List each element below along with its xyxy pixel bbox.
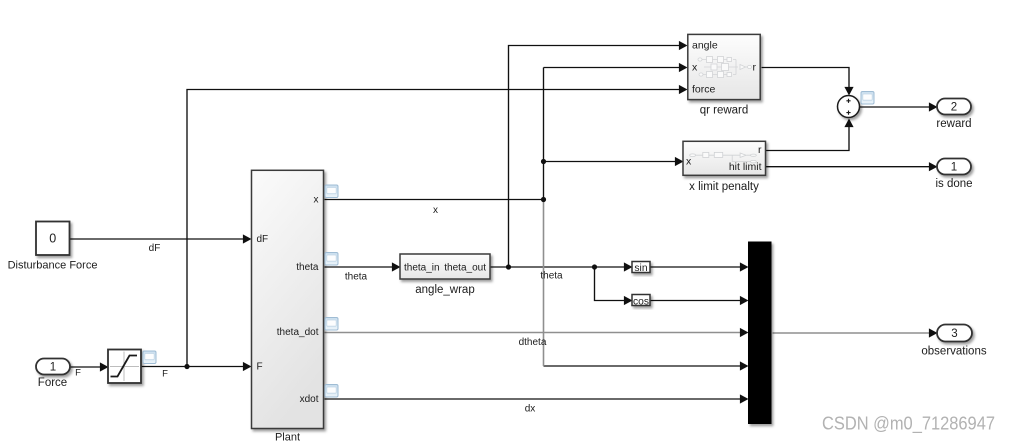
wire x down to mux input 4 bbox=[544, 365, 742, 367]
svg-text:xdot: xdot bbox=[300, 394, 319, 405]
arrow into Saturation bbox=[100, 362, 109, 371]
wire x: Plant x output to junction bbox=[325, 199, 544, 201]
junction theta to cos branch bbox=[592, 264, 597, 269]
x limit penalty content preview bbox=[690, 152, 757, 162]
qr reward content preview bbox=[698, 57, 752, 78]
arrow into x limit penalty x bbox=[675, 157, 684, 166]
svg-text:theta: theta bbox=[345, 272, 368, 283]
svg-text:x: x bbox=[692, 62, 698, 74]
arrow into reward bbox=[929, 102, 938, 111]
wire theta branch up to qr reward angle input bbox=[509, 46, 681, 268]
arrow into cos bbox=[624, 296, 633, 305]
wire qr reward r to Sum top bbox=[762, 68, 850, 89]
svg-text:Force: Force bbox=[38, 377, 67, 389]
arrow into Sum bottom (up) bbox=[844, 119, 853, 128]
svg-text:theta_dot: theta_dot bbox=[277, 327, 319, 338]
svg-text:sin: sin bbox=[634, 263, 647, 274]
wire force: branch up to qr reward force input bbox=[187, 90, 681, 367]
arrow into mux input 5 bbox=[740, 394, 749, 403]
svg-text:cos: cos bbox=[633, 296, 649, 307]
arrow into Sum top (down) bbox=[844, 87, 853, 96]
wire dx: Plant xdot to mux input 5 bbox=[325, 398, 742, 400]
gain cos bbox=[632, 295, 650, 306]
junction x to x limit penalty bbox=[541, 159, 546, 164]
arrow into Plant F bbox=[243, 362, 252, 371]
svg-text:dF: dF bbox=[149, 243, 161, 254]
arrow into Plant dF bbox=[243, 234, 252, 243]
sum block bbox=[838, 96, 860, 118]
badge on Sum output bbox=[861, 92, 874, 105]
gray soft wires bbox=[325, 200, 931, 367]
outport is done (1) bbox=[937, 159, 971, 175]
svg-text:theta_in: theta_in bbox=[404, 263, 440, 274]
wire theta: angle_wrap output to sin bbox=[491, 266, 626, 268]
svg-text:CSDN @m0_71286947: CSDN @m0_71286947 bbox=[822, 414, 995, 435]
svg-text:F: F bbox=[75, 368, 81, 379]
inport Force (1) bbox=[36, 359, 70, 375]
svg-text:hit limit: hit limit bbox=[729, 161, 762, 173]
wire x vertical trunk lower (soft) bbox=[543, 200, 545, 367]
svg-text:3: 3 bbox=[951, 328, 957, 340]
svg-text:x: x bbox=[686, 155, 692, 167]
svg-text:Plant: Plant bbox=[275, 432, 300, 443]
svg-text:force: force bbox=[692, 84, 716, 96]
svg-text:dtheta: dtheta bbox=[519, 337, 547, 348]
svg-text:F: F bbox=[162, 369, 168, 380]
arrow into sin bbox=[624, 262, 633, 271]
sum plus top bbox=[846, 99, 850, 103]
junction theta to angle branch bbox=[506, 264, 511, 269]
svg-text:theta: theta bbox=[296, 262, 319, 273]
outport reward (2) bbox=[937, 99, 971, 115]
svg-text:dF: dF bbox=[257, 234, 269, 245]
arrow into mux input 3 bbox=[740, 328, 749, 337]
outport observations (3) bbox=[937, 325, 972, 342]
wire hit limit to is done bbox=[766, 166, 931, 168]
wire x limit penalty r to Sum bottom bbox=[766, 126, 849, 151]
junction F branch bbox=[184, 364, 189, 369]
svg-text:reward: reward bbox=[936, 118, 971, 130]
badge on Plant xdot output bbox=[325, 385, 338, 398]
subsystem Plant bbox=[252, 170, 324, 428]
wire dF: Constant to Plant dF bbox=[70, 238, 245, 240]
badge on Plant theta output bbox=[325, 253, 338, 266]
wire x to qr reward x input bbox=[544, 67, 681, 69]
wire x vertical trunk upper bbox=[543, 68, 545, 200]
gain sin bbox=[632, 262, 650, 273]
svg-text:dx: dx bbox=[525, 404, 536, 415]
svg-text:observations: observations bbox=[921, 346, 986, 358]
svg-text:Disturbance Force: Disturbance Force bbox=[8, 259, 98, 271]
svg-text:2: 2 bbox=[951, 102, 957, 114]
arrow into mux input 1 bbox=[740, 262, 749, 271]
svg-text:x: x bbox=[314, 195, 319, 206]
svg-text:r: r bbox=[753, 62, 757, 74]
badge on Plant theta_dot output bbox=[325, 318, 338, 331]
arrow into observations bbox=[929, 328, 938, 337]
subsystem angle_wrap bbox=[400, 254, 490, 279]
wire cos output to mux input 2 bbox=[651, 300, 742, 302]
constant block Disturbance Force value 0 bbox=[36, 222, 70, 256]
subsystem qr reward bbox=[688, 34, 760, 99]
subsystem x limit penalty bbox=[683, 141, 766, 175]
svg-text:F: F bbox=[257, 362, 263, 373]
badge on Plant x output bbox=[325, 185, 338, 198]
sum plus bottom bbox=[846, 111, 850, 115]
wire Sum to reward bbox=[860, 106, 931, 108]
wire theta: Plant theta to angle_wrap bbox=[325, 266, 394, 268]
wire mux output to observations (soft) bbox=[773, 332, 931, 334]
arrow into qr reward angle bbox=[679, 41, 688, 50]
wire sin output to mux input 1 bbox=[651, 266, 742, 268]
svg-text:r: r bbox=[758, 144, 762, 156]
arrow into qr reward x bbox=[679, 63, 688, 72]
junction x at vertical trunk bbox=[541, 197, 546, 202]
svg-text:0: 0 bbox=[49, 231, 56, 245]
wire Force to Saturation bbox=[71, 366, 102, 368]
svg-text:qr reward: qr reward bbox=[700, 105, 749, 117]
svg-text:theta: theta bbox=[540, 270, 563, 281]
saturation axes bbox=[110, 352, 139, 382]
svg-text:is done: is done bbox=[935, 178, 972, 190]
saturation block bbox=[108, 350, 141, 384]
svg-text:theta_out: theta_out bbox=[444, 263, 486, 274]
arrow into mux input 4 bbox=[740, 361, 749, 370]
wire x to x limit penalty input bbox=[544, 161, 676, 163]
saturation curve bbox=[111, 356, 138, 377]
wire theta branch down to cos bbox=[595, 267, 626, 301]
svg-text:1: 1 bbox=[951, 162, 957, 174]
svg-text:angle_wrap: angle_wrap bbox=[415, 284, 474, 296]
svg-text:1: 1 bbox=[50, 361, 56, 373]
arrow into mux input 2 bbox=[740, 296, 749, 305]
wire F: Saturation to Plant F bbox=[142, 366, 245, 368]
arrow into qr reward force bbox=[679, 85, 688, 94]
arrow into is done bbox=[929, 162, 938, 171]
badge on Saturation output bbox=[143, 351, 156, 364]
arrow into angle_wrap bbox=[392, 262, 401, 271]
wire dtheta: Plant theta_dot to mux input 3 (soft) bbox=[325, 332, 742, 334]
svg-text:x limit penalty: x limit penalty bbox=[689, 181, 759, 193]
mux block bbox=[748, 242, 772, 425]
svg-text:x: x bbox=[433, 205, 438, 216]
svg-text:angle: angle bbox=[692, 40, 718, 52]
